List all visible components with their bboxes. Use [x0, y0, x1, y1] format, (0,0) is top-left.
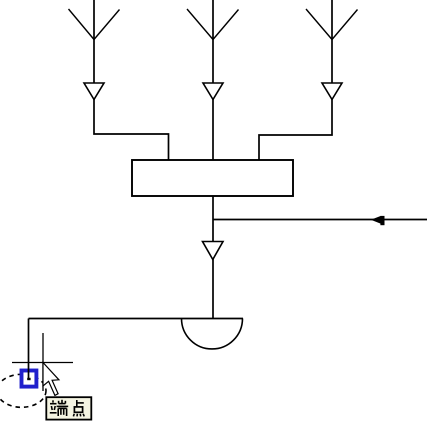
tooltip box	[46, 397, 91, 419]
crosshair cursor horizontal	[12, 362, 73, 364]
endpoint snap marker (blue square)	[22, 371, 37, 387]
amplifier A4	[203, 242, 224, 260]
wire A2 output to combiner	[212, 100, 214, 161]
antenna AN3 left arm	[306, 9, 332, 40]
wire drop at left end	[28, 319, 30, 380]
arrowhead tail block	[380, 216, 384, 225]
tooltip text "duan" (端)	[50, 400, 68, 416]
wire A1 output to combiner	[94, 100, 169, 161]
antenna AN1 right arm	[94, 10, 120, 40]
arrowhead on branch wire	[371, 216, 381, 224]
pointer arrow cursor	[43, 363, 59, 396]
wire to outlet run	[29, 318, 244, 320]
amplifier A1	[84, 83, 104, 100]
amplifier A3	[322, 83, 342, 100]
wire endpoint tick	[27, 378, 30, 380]
antenna AN3 mast	[331, 0, 333, 83]
wire A3 output to combiner	[259, 100, 332, 161]
antenna AN1 left arm	[69, 9, 95, 40]
antenna AN2 right arm	[213, 10, 239, 40]
amplifier A2	[203, 83, 223, 100]
wire branch to right edge	[213, 219, 427, 221]
antenna AN2 mast	[212, 0, 214, 83]
crosshair cursor vertical	[42, 333, 44, 391]
antenna AN1 mast	[93, 0, 95, 83]
dashed highlight ellipse	[0, 374, 46, 407]
antenna AN3 right arm	[332, 10, 358, 40]
outlet dome (half circle)	[182, 319, 243, 349]
wire combiner output down	[212, 196, 214, 319]
antenna AN2 left arm	[187, 9, 213, 40]
combiner box U1	[132, 160, 293, 196]
tooltip text "dian" (点)	[73, 400, 84, 416]
